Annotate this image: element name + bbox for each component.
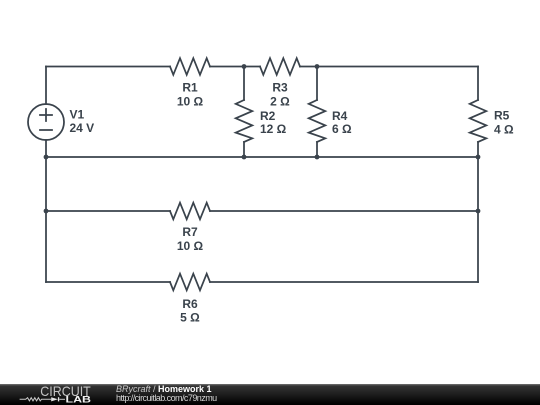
node top-R2: [242, 64, 247, 69]
wire R3 to right rail: [300, 66, 478, 68]
wire top horizontal V1 to R1: [46, 66, 170, 68]
svg-text:2 Ω: 2 Ω: [270, 95, 290, 109]
resistor R6: [170, 274, 210, 291]
svg-text:R4: R4: [332, 109, 348, 123]
svg-text:10 Ω: 10 Ω: [177, 95, 204, 109]
resistor R4: [309, 67, 326, 158]
svg-text:24 V: 24 V: [70, 121, 95, 135]
resistor R2: [236, 67, 253, 158]
CircuitLab logo: [15, 383, 97, 405]
svg-text:R2: R2: [260, 109, 276, 123]
wire V1 bottom to left rail: [45, 140, 47, 282]
node mid-R4: [315, 155, 320, 160]
wire R1 to node A: [210, 66, 260, 68]
svg-text:LAB: LAB: [66, 394, 92, 405]
wire R7 row left segment: [46, 210, 170, 212]
footer meta text: [115, 384, 117, 386]
svg-text:12 Ω: 12 Ω: [260, 122, 287, 136]
voltage source V1: [28, 104, 64, 140]
logo diode: [51, 397, 58, 401]
resistor R7: [170, 203, 210, 220]
node right-mid: [476, 155, 481, 160]
resistor R5 on right rail: [470, 67, 487, 283]
wire top-left vertical from top wire to V1 top: [45, 67, 47, 105]
svg-text:R1: R1: [182, 81, 198, 95]
svg-text:5 Ω: 5 Ω: [180, 311, 200, 325]
wire R6 row left segment: [46, 281, 170, 283]
svg-text:R5: R5: [494, 109, 510, 123]
resistor R1: [170, 58, 210, 75]
svg-text:R3: R3: [272, 81, 288, 95]
svg-text:R6: R6: [182, 297, 198, 311]
node right-R7: [476, 209, 481, 214]
resistor R3: [260, 58, 300, 75]
node left-mid: [44, 155, 49, 160]
svg-text:R7: R7: [182, 225, 198, 239]
wire R7 row right segment: [210, 210, 478, 212]
node junction dots: [44, 64, 481, 213]
wire mid horizontal: [46, 156, 478, 158]
node mid-R2: [242, 155, 247, 160]
svg-text:V1: V1: [70, 108, 85, 122]
node top-R4: [315, 64, 320, 69]
svg-text:4 Ω: 4 Ω: [494, 123, 514, 137]
svg-text:10 Ω: 10 Ω: [177, 239, 204, 253]
footer bar: [0, 384, 540, 405]
svg-text:6 Ω: 6 Ω: [332, 122, 352, 136]
node left-R7: [44, 209, 49, 214]
wire R6 row right segment: [210, 281, 478, 283]
logo resistor squiggle: [20, 398, 52, 401]
